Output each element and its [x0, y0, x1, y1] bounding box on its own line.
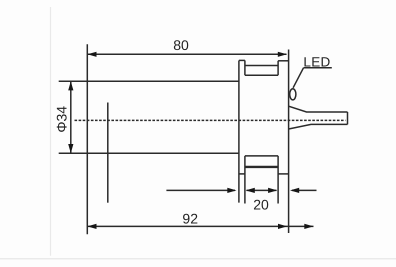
body bottom edge	[59, 152, 239, 154]
centerline	[75, 119, 346, 121]
bottom groove right wall / extension	[277, 156, 279, 204]
dimension phi34 line	[70, 81, 72, 153]
svg-text:80: 80	[173, 37, 189, 53]
top groove bottom	[245, 74, 278, 76]
arrowhead dim92 left	[87, 224, 96, 229]
svg-text:92: 92	[182, 210, 198, 226]
flange bottom right stub	[278, 173, 289, 175]
top groove right wall	[277, 61, 279, 75]
svg-text:LED: LED	[303, 55, 330, 70]
arrowhead 20-row inner left	[246, 188, 255, 193]
faint table border vertical	[50, 7, 52, 256]
cable top taper	[289, 106, 348, 112]
LED leader shoulder under text	[304, 67, 332, 69]
svg-text:Φ34: Φ34	[54, 106, 70, 133]
LED indicator ellipse	[290, 89, 296, 100]
dim 20 long arrow line	[166, 189, 235, 191]
arrowhead 20-row outer left-pointing	[290, 188, 299, 193]
top groove inner line	[245, 65, 277, 67]
arrowhead phi34 down	[68, 144, 73, 153]
bottom groove inner thick line	[245, 166, 278, 168]
dim 20 double arrow line	[247, 189, 277, 191]
bottom groove top edge	[245, 155, 278, 157]
arrowhead 20-row inner right	[268, 188, 277, 193]
body top edge	[59, 80, 239, 82]
cable right end	[347, 112, 349, 124]
dim 20 right arrow line	[292, 189, 317, 191]
arrowhead dim80 left	[87, 52, 96, 57]
arrowhead dim80 right	[278, 52, 287, 57]
arrowhead dim92 mid right	[278, 224, 287, 229]
arrowhead dim92 end right	[304, 224, 313, 229]
flange top right stub	[278, 60, 289, 62]
faint table border horizontal	[0, 258, 396, 260]
dimension 80 line	[87, 53, 286, 55]
dimension 92 line	[87, 225, 313, 227]
arrowhead phi34 up	[68, 81, 73, 90]
flange bottom left stub	[239, 173, 245, 175]
flange right edge	[288, 50, 290, 234]
svg-text:20: 20	[253, 196, 269, 212]
arrowhead 20-row long arrow right	[227, 188, 236, 193]
top groove left wall	[244, 60, 246, 75]
LED leader line	[293, 68, 303, 88]
flange left edge	[238, 61, 240, 203]
body left edge / extension line	[86, 44, 88, 234]
flange top left stub	[239, 59, 245, 61]
inner vertical line	[107, 103, 109, 203]
cable bottom taper	[289, 124, 348, 129]
bottom groove left wall / extension	[244, 156, 246, 204]
